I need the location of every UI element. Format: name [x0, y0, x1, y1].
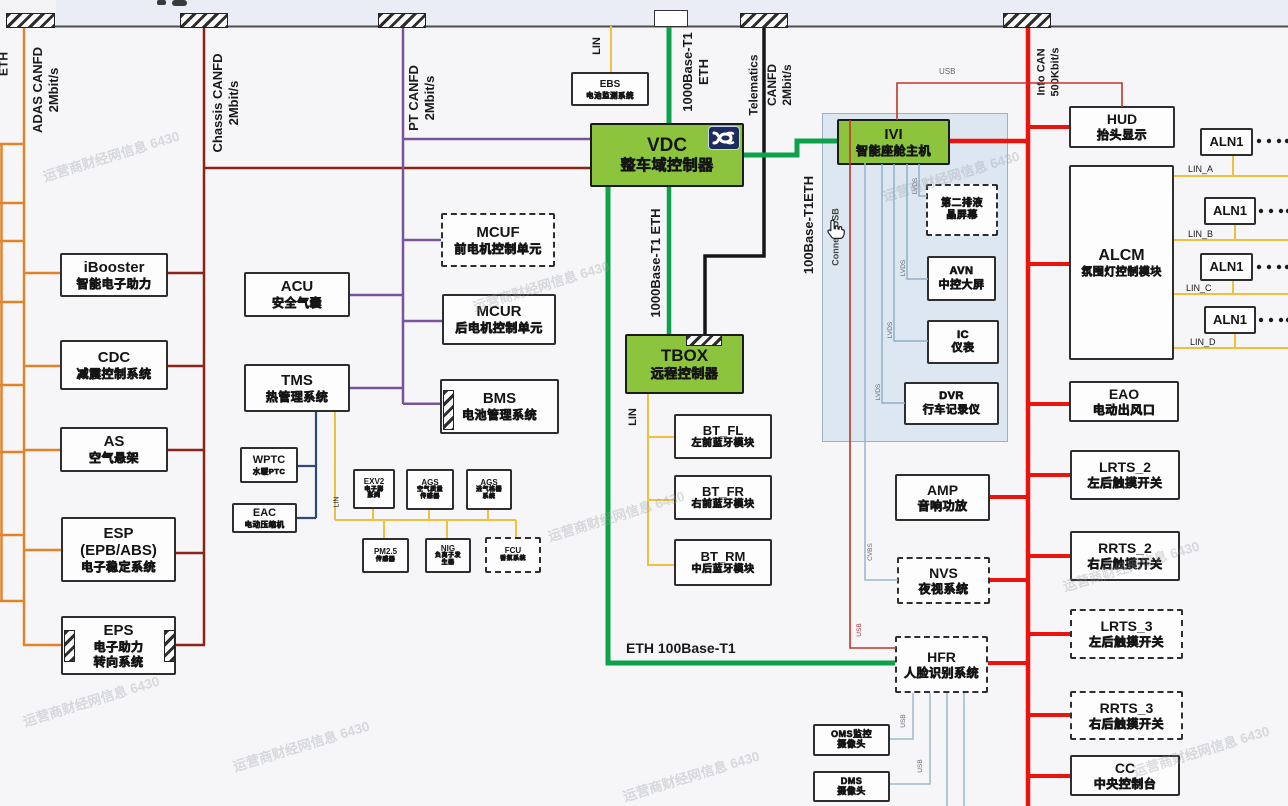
dots after ALN1 row1	[1257, 139, 1288, 143]
wire maroon stub iBooster	[168, 272, 204, 275]
wire orange branch ESP	[24, 549, 61, 552]
wire green VDC to IVI	[744, 141, 837, 155]
ECU AS	[60, 427, 168, 472]
label Info CAN	[1035, 48, 1063, 97]
bus Telematics CANFD (black)	[705, 26, 764, 334]
wire red branch HUD	[1028, 125, 1069, 129]
wire purple stub BMS	[403, 403, 440, 406]
ECU RRTS_2	[1070, 531, 1180, 581]
label USB near HFR	[856, 623, 864, 636]
ECU ALCM	[1069, 165, 1174, 360]
wire orange branch AS	[24, 449, 60, 452]
EPS hatch left	[64, 630, 75, 662]
label LIN_D	[1190, 337, 1216, 347]
ECU EXV2	[353, 469, 395, 509]
camera DMS	[813, 771, 890, 802]
top connector white box ETH	[654, 10, 688, 27]
wire red branch AMP	[990, 495, 1028, 499]
wire USB IVI to HFR (thin red)	[850, 120, 896, 648]
wire maroon stub CDC	[168, 365, 204, 368]
ECU MCUR	[442, 294, 556, 345]
node ALN1 row3	[1200, 253, 1253, 281]
label 100Base-T1ETH	[801, 176, 817, 274]
ECU BMS	[440, 379, 559, 434]
label 1000Base-T1 ETH top	[680, 32, 713, 112]
hatched top connector PT	[378, 13, 426, 28]
wire red branch CC	[1028, 774, 1070, 778]
wire red branch ALCM	[1028, 262, 1069, 266]
wire orange branch EPS	[23, 644, 61, 647]
wire LIN from TBOX	[647, 394, 674, 565]
hatched top connector Telematics	[740, 13, 788, 28]
wire LIN to EBS	[610, 26, 612, 72]
label LIN TBOX	[627, 408, 641, 426]
label Telematics CANFD 2Mbit/s	[765, 64, 795, 106]
ECU EBS	[571, 72, 649, 106]
wire LVDS to rear display	[919, 164, 927, 196]
wire orange branch iBooster	[24, 272, 60, 275]
label LIN_C	[1186, 283, 1212, 293]
label 1000Base-T1 ETH mid	[648, 208, 664, 317]
label USB on IVI-HUD wire	[939, 67, 955, 76]
partial cut glyphs top edge	[157, 0, 166, 5]
camera OMS	[813, 724, 890, 756]
ECU ESP	[61, 517, 176, 582]
wire yellow TMS tree	[335, 412, 516, 538]
ECU WPTC	[240, 447, 298, 483]
wire USB HFR down 3	[946, 693, 948, 806]
wire purple stub MCUF	[403, 239, 441, 242]
wire maroon to VDC	[204, 167, 590, 170]
frame top line	[6, 26, 1288, 28]
ECU CDC	[60, 340, 168, 390]
label LVDS 3	[887, 322, 895, 339]
label Telematics	[747, 54, 762, 115]
ECU HFR (dashed)	[895, 636, 988, 693]
wire red branch NVS	[990, 578, 1028, 582]
wire orange rungs to off-screen boxes	[0, 144, 24, 601]
ECU AGS 2	[466, 469, 512, 510]
ECU MCUF (dashed)	[441, 213, 555, 267]
wire USB IVI to HUD (thin red)	[897, 83, 1122, 120]
ECU LRTS_3 (dashed)	[1070, 609, 1183, 659]
wire LVDS to IC	[894, 164, 928, 341]
ECU BT_FR	[674, 475, 772, 520]
wire orange branch CDC	[24, 365, 60, 368]
ECU EPS	[61, 616, 176, 675]
ECU RRTS_3 (dashed)	[1070, 691, 1183, 740]
wire red branch RRTS_2	[1028, 554, 1070, 558]
label LIN_A	[1188, 164, 1213, 174]
wire USB HFR to OMS	[890, 693, 913, 739]
ECU EAC	[232, 503, 297, 533]
label ADAS CANFD	[30, 47, 63, 133]
ECU LRTS_2	[1070, 450, 1180, 500]
dots after ALN1 row2	[1259, 209, 1288, 213]
node ALN1 row4	[1204, 306, 1256, 334]
ECU PM2.5	[362, 538, 409, 573]
wire maroon stub EPS	[176, 644, 205, 647]
wire USB HFR to DMS	[890, 693, 930, 784]
label PT CANFD	[406, 65, 439, 131]
label USB OMS wire	[900, 714, 908, 727]
wire navy TMS to WPTC EAC	[297, 412, 316, 518]
display 第二排液晶屏幕 (dashed)	[926, 184, 998, 236]
label LVDS 4	[875, 384, 883, 401]
ECU HUD	[1069, 106, 1175, 148]
wire red branch HFR	[988, 661, 1028, 665]
wire CVBS to NVS	[865, 163, 898, 580]
ECU IVI (green)	[837, 119, 950, 165]
label LIN_B	[1188, 229, 1213, 239]
wire 1000Base-T1 top into VDC	[667, 25, 672, 123]
wire maroon stub AS	[168, 449, 204, 452]
wire LVDS to DVR	[882, 164, 905, 403]
ECU TBOX (green)	[625, 334, 744, 394]
wire maroon stub ESP	[176, 552, 204, 555]
ECU AMP	[895, 474, 990, 521]
wire LIN_D	[1174, 334, 1288, 348]
top strip background	[0, 0, 1288, 26]
wire red IVI to bus	[950, 139, 1028, 144]
node ALN1 row1	[1200, 128, 1253, 156]
dots after ALN1 row3	[1257, 265, 1288, 269]
bus Chassis CANFD (maroon)	[203, 26, 206, 645]
wire green ETH 100Base-T1 to HFR	[608, 187, 895, 663]
label LIN EBS	[591, 37, 605, 55]
label LVDS 1	[912, 178, 920, 195]
node ALN1 row2	[1204, 197, 1256, 225]
ECU IC	[927, 320, 999, 364]
wire purple stub MCUR	[403, 320, 442, 323]
cursor hand	[828, 220, 844, 238]
ECU VDC (green)	[590, 123, 744, 187]
hatched top connector Info CAN	[1003, 13, 1051, 28]
IVI container panel	[822, 113, 1008, 442]
ECU NVS (dashed)	[897, 557, 990, 604]
label Connect USB	[830, 208, 841, 266]
bus PT CANFD (purple)	[402, 26, 405, 404]
VDC logo	[708, 126, 740, 150]
wire purple stub ACU	[350, 294, 403, 297]
wire LIN_C	[1174, 281, 1288, 294]
hatched top connector Chassis	[180, 13, 228, 28]
wire red branch EAO	[1028, 402, 1069, 406]
ECU AVN	[927, 256, 996, 301]
ECU TMS	[244, 364, 350, 412]
wire USB HFR down 4	[963, 693, 965, 806]
ECU ACU	[244, 272, 350, 317]
bus Info CAN (red)	[1026, 26, 1031, 806]
label CVBS	[867, 543, 875, 561]
wire ladder left line	[0, 144, 3, 601]
ECU EAO	[1069, 381, 1179, 422]
wire purple stub TMS	[350, 387, 403, 390]
ECU CC	[1070, 755, 1180, 796]
wire LIN_A	[1174, 156, 1288, 176]
wire LVDS to AVN	[907, 164, 928, 279]
EPS hatch right	[164, 630, 175, 662]
wire LIN_B	[1174, 225, 1288, 240]
ECU DVR	[904, 382, 999, 425]
label ETH 100Base-T1	[626, 640, 736, 656]
ECU BT_RM	[674, 539, 772, 586]
wire red branch LRTS_2	[1028, 473, 1070, 477]
ECU iBooster	[60, 253, 168, 297]
label LVDS 2	[900, 260, 908, 277]
watermarks	[40, 125, 181, 186]
ECU FCU (dashed)	[485, 537, 541, 573]
wire purple to VDC	[403, 138, 590, 141]
dots after ALN1 row4	[1259, 318, 1288, 322]
bus ADAS CANFD (orange)	[23, 26, 26, 645]
label LIN small TMS	[334, 497, 343, 508]
wire red branch RRTS_3	[1028, 713, 1070, 717]
label USB DMS wire	[917, 759, 925, 772]
wire green VDC to TBOX	[667, 187, 672, 334]
ECU AGS 1	[406, 469, 454, 510]
ECU BT_FL	[674, 414, 772, 459]
label Chassis CANFD	[210, 54, 243, 153]
ECU NIG	[425, 538, 471, 573]
BMS hatch left	[443, 390, 454, 430]
label ETH cut-off	[0, 52, 12, 76]
hatched top connector ADAS	[6, 13, 55, 28]
wire red branch LRTS_3	[1028, 632, 1070, 636]
TBOX hatch strip	[686, 335, 722, 346]
